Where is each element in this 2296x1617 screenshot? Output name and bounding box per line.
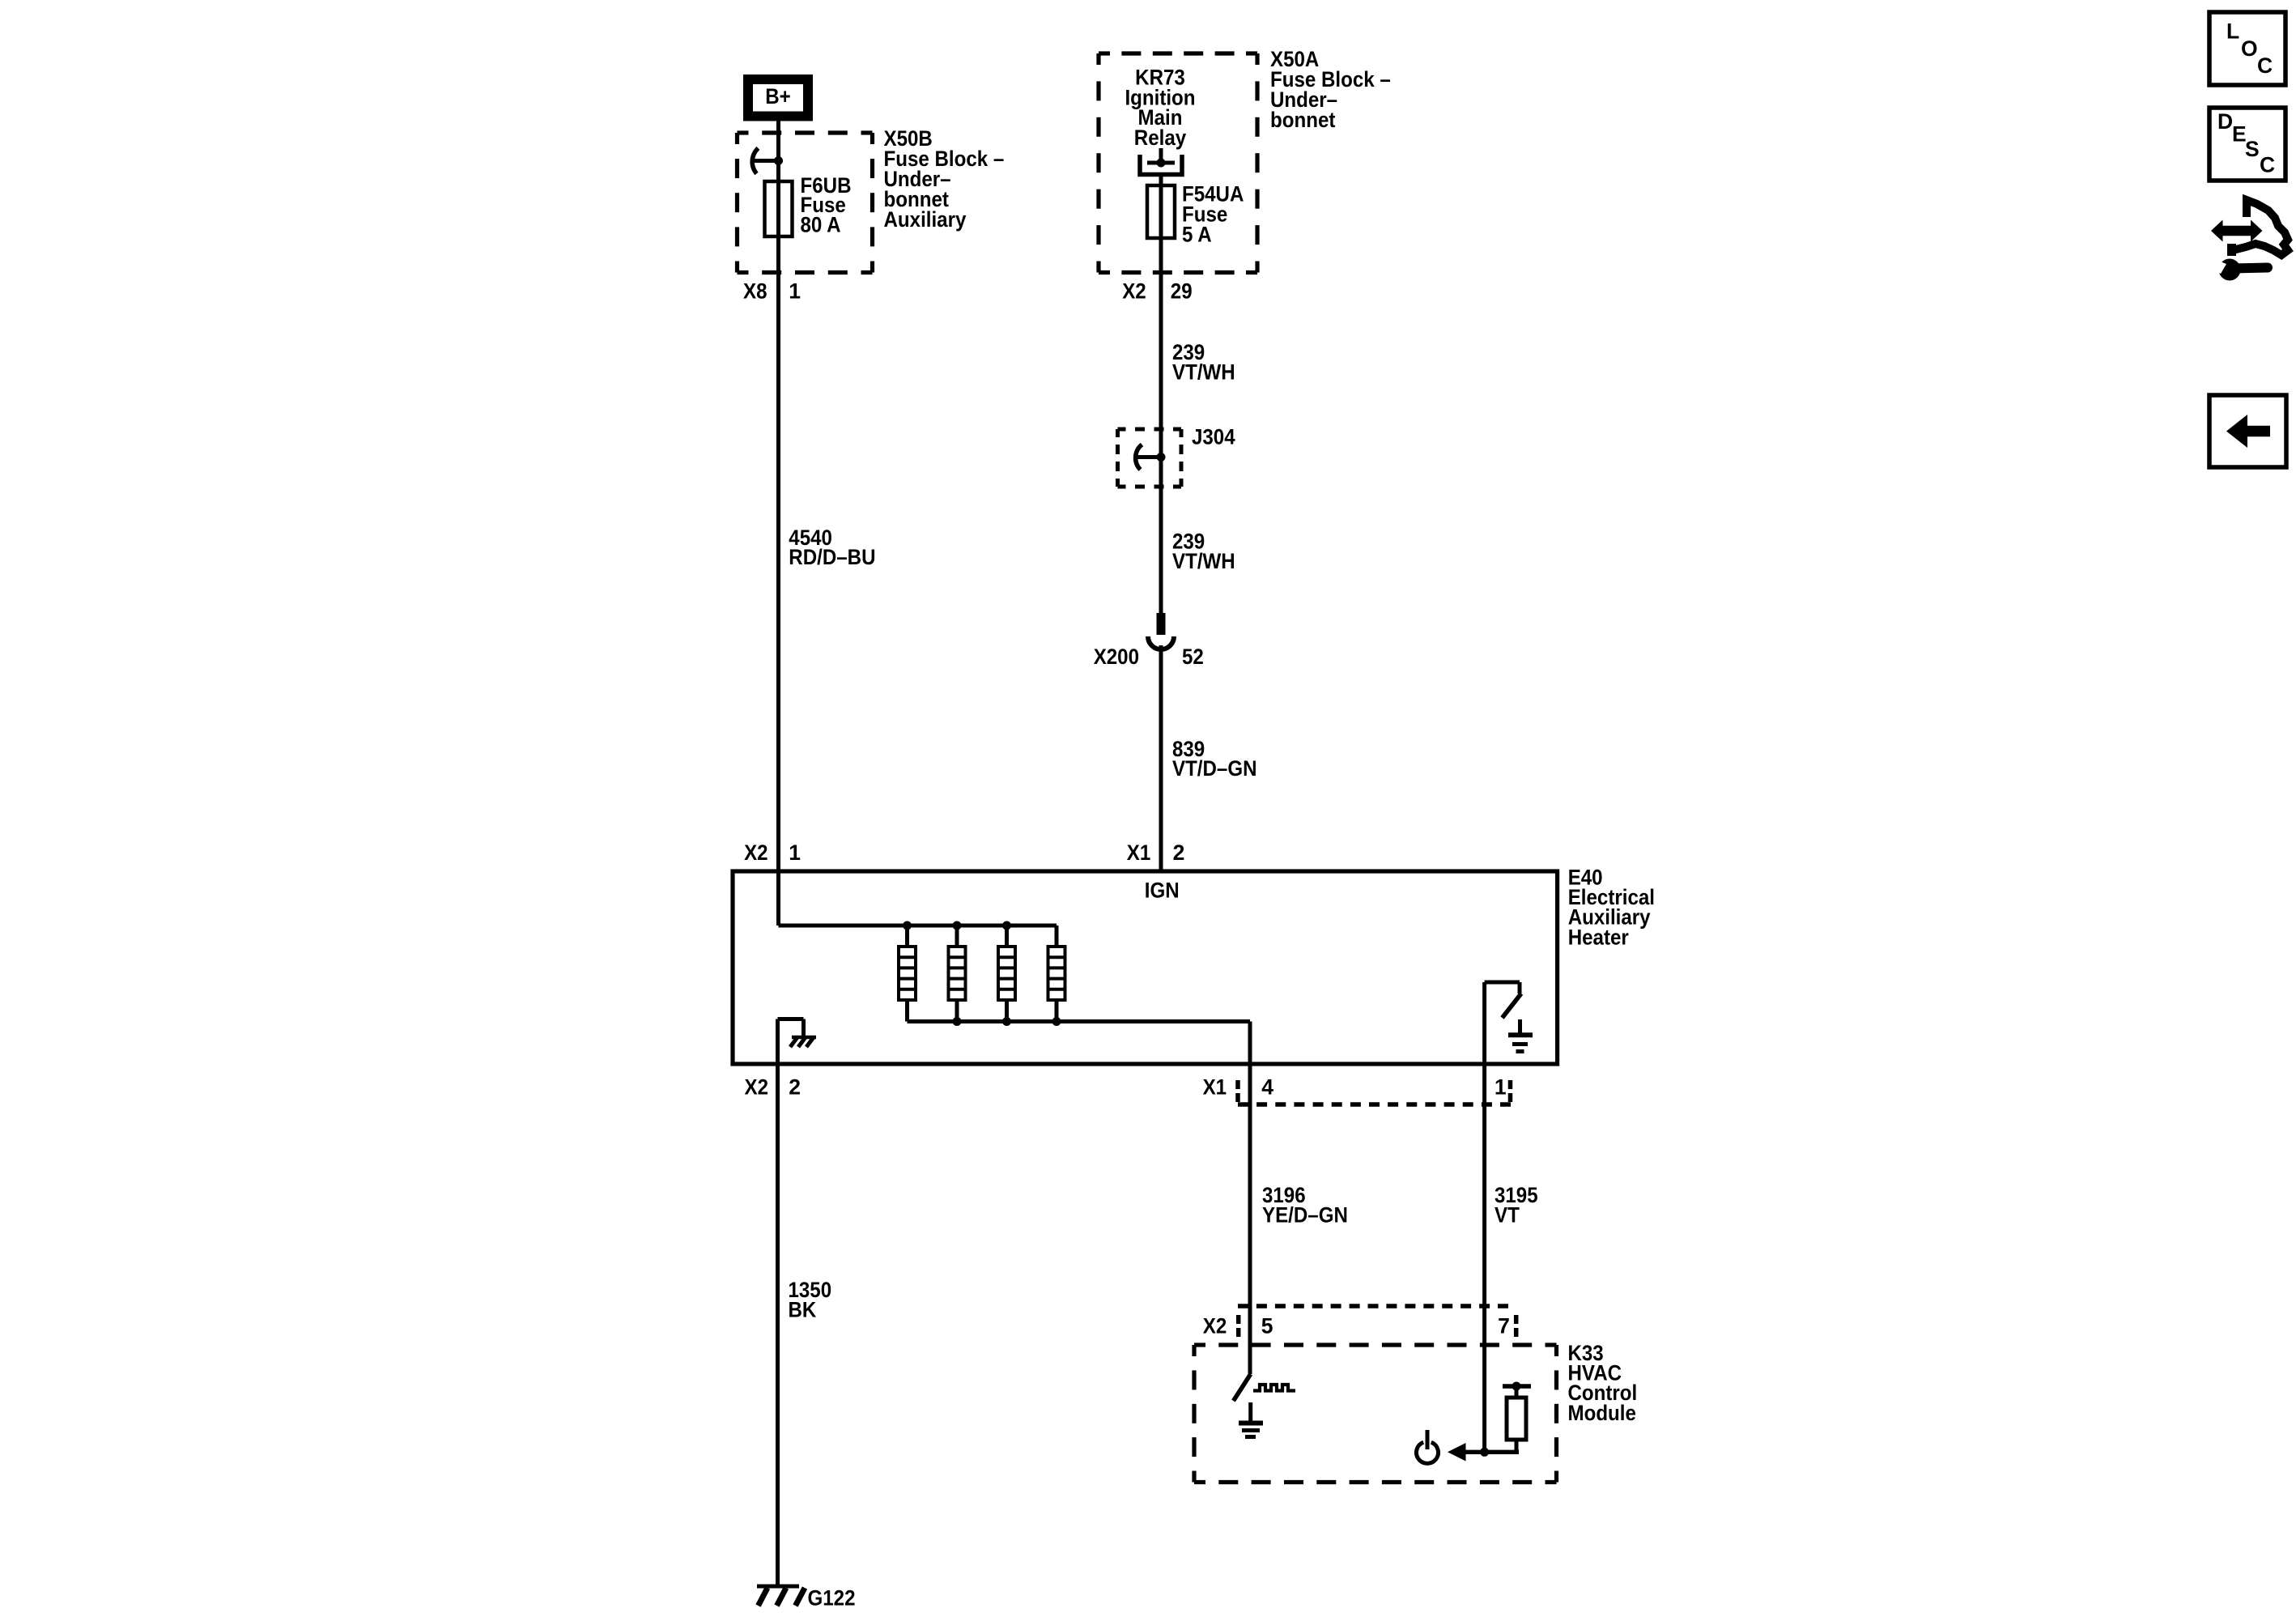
svg-text:O: O (2241, 36, 2258, 61)
label wire 3196 YE/D-GN (1262, 1183, 1348, 1227)
svg-text:J304: J304 (1192, 424, 1235, 449)
pin label X2 at K33 (1203, 1313, 1227, 1338)
label wire 1350 BK (789, 1278, 832, 1322)
wire E40 right pin1 branch (1485, 982, 1520, 1065)
resistor in K33 (1503, 1386, 1531, 1452)
label wire 839 VT/D-GN (1172, 737, 1257, 781)
svg-text:bonnet: bonnet (1270, 108, 1336, 132)
junction dot pin7 wire node (1480, 1448, 1489, 1457)
label IGN (1145, 879, 1180, 903)
svg-text:Relay: Relay (1134, 126, 1187, 150)
svg-text:X2: X2 (1122, 279, 1146, 303)
svg-text:X2: X2 (745, 1074, 769, 1099)
svg-text:4: 4 (1261, 1074, 1273, 1099)
fuse F6UB rect 80A (765, 181, 793, 236)
label wire 239 VT/WH upper (1172, 340, 1235, 385)
svg-text:Heater: Heater (1568, 925, 1629, 949)
dashed connector line above K33 (1238, 1304, 1508, 1308)
label X50B Fuse Block Underbonnet Auxiliary (884, 126, 1005, 232)
pin label X1 below E40 (1203, 1074, 1227, 1099)
label wire 3195 VT (1495, 1183, 1538, 1227)
connector X200 female cup (1148, 636, 1174, 649)
icon box back arrow (2209, 395, 2286, 467)
svg-text:X1: X1 (1203, 1074, 1227, 1099)
wire 3196 down (1248, 1063, 1252, 1374)
pin label X1 above E40 (1127, 840, 1151, 865)
svg-text:VT/WH: VT/WH (1172, 360, 1235, 384)
ground G122 chassis symbol (757, 1586, 805, 1606)
splice J304 dashed box (1118, 429, 1182, 487)
svg-text:BK: BK (789, 1297, 817, 1321)
svg-text:G122: G122 (808, 1586, 856, 1611)
svg-text:VT/D–GN: VT/D–GN (1172, 756, 1257, 781)
svg-text:X2: X2 (744, 840, 768, 865)
pin label X200 (1094, 645, 1139, 669)
pin label X2 above E40 left (744, 840, 768, 865)
switch blade inside E40 (1503, 994, 1522, 1018)
svg-text:X200: X200 (1094, 645, 1139, 669)
icon back arrow (2226, 415, 2270, 448)
label G122 (808, 1586, 856, 1611)
svg-text:1: 1 (789, 279, 801, 303)
fuse F54UA rect 5A (1147, 185, 1175, 238)
svg-text:L: L (2226, 19, 2239, 43)
svg-text:1: 1 (789, 840, 801, 865)
connector tick right pin1 (1508, 1080, 1513, 1102)
icon remove-replace double arrow (2211, 220, 2263, 242)
connector terminal arc at J304 (1136, 445, 1161, 470)
icon text DESC (2217, 109, 2275, 177)
arrowhead to power symbol (1448, 1443, 1466, 1462)
power label B+ text (765, 84, 791, 109)
svg-text:29: 29 (1171, 279, 1193, 303)
label E40 Electrical Auxiliary Heater (1568, 865, 1655, 949)
pin label X8 (743, 279, 767, 303)
heater element 2 (949, 926, 966, 1022)
svg-text:C: C (2257, 53, 2273, 78)
pin label 29 (1171, 279, 1193, 303)
label wire 4540 RD/D-BU (789, 526, 875, 569)
icon box LOC (2209, 12, 2285, 85)
switch blade in K33 (1234, 1374, 1251, 1401)
label wire 239 VT/WH lower (1172, 529, 1235, 573)
pin label 2 below E40 (789, 1074, 801, 1099)
svg-text:VT/WH: VT/WH (1172, 549, 1235, 573)
svg-text:2: 2 (1173, 840, 1185, 865)
svg-text:52: 52 (1182, 645, 1204, 669)
label F6UB Fuse 80 A (801, 173, 852, 237)
wire E40 ground jog X2-2 (778, 1019, 804, 1066)
relay KR73 contact bar and bracket (1140, 148, 1182, 175)
power-on symbol (1416, 1430, 1438, 1463)
label KR73 Ignition Main Relay (1125, 66, 1195, 150)
icon remove-replace wrench (2209, 258, 2268, 281)
svg-text:X2: X2 (1203, 1313, 1227, 1338)
svg-text:80 A: 80 A (801, 212, 841, 236)
wire X200 down to E40 pin X1-2 (1159, 645, 1163, 871)
pin label 52 (1182, 645, 1204, 669)
heater element 4 (1048, 926, 1065, 1022)
chassis ground inside E40 (790, 1037, 816, 1047)
pin label X2 below E40 (745, 1074, 769, 1099)
icon remove-replace part outline (2227, 200, 2288, 256)
heater element 1 (899, 926, 916, 1022)
svg-text:VT: VT (1495, 1202, 1520, 1227)
junction dot B+ fuse node (774, 156, 783, 165)
pin label 1 above E40 left (789, 840, 801, 865)
earth ground in K33 (1239, 1402, 1263, 1437)
label J304 (1192, 424, 1235, 449)
svg-text:Auxiliary: Auxiliary (884, 207, 967, 232)
svg-text:5 A: 5 A (1182, 222, 1212, 246)
icon text LOC (2226, 19, 2273, 78)
svg-text:B+: B+ (765, 84, 791, 109)
svg-text:Module: Module (1568, 1401, 1636, 1425)
connector tick right pin7 (1514, 1315, 1519, 1337)
svg-text:1: 1 (1495, 1074, 1507, 1099)
wire 3195 down (1482, 1063, 1486, 1452)
svg-text:2: 2 (789, 1074, 801, 1099)
connector X200 male terminal tip (1157, 613, 1166, 635)
earth ground inside E40 (1508, 1019, 1533, 1052)
fuse block X50B dashed box (738, 133, 873, 273)
pin label 5 at K33 (1261, 1313, 1273, 1338)
svg-text:X1: X1 (1127, 840, 1151, 865)
power symbol B+ box (743, 74, 813, 121)
svg-text:C: C (2260, 152, 2275, 177)
fuse block X50A dashed box (1099, 53, 1257, 273)
wire 1350 BK to ground (776, 1063, 780, 1586)
svg-text:RD/D–BU: RD/D–BU (789, 545, 875, 569)
pin label 2 above E40 (1173, 840, 1185, 865)
junction dots bottom bus (953, 1017, 1061, 1026)
label X50A Fuse Block Underbonnet (1270, 47, 1391, 132)
svg-text:IGN: IGN (1145, 879, 1180, 903)
module K33 HVAC Control dashed box (1194, 1345, 1557, 1483)
wire relay to fuse F54UA (1159, 174, 1163, 185)
svg-text:5: 5 (1261, 1313, 1273, 1338)
wire E40 internal top bus (779, 871, 1057, 926)
label K33 HVAC Control Module (1568, 1341, 1638, 1425)
svg-text:YE/D–GN: YE/D–GN (1262, 1202, 1348, 1227)
junction dot J304 (1157, 453, 1166, 462)
wire resistor to arrow (1465, 1450, 1519, 1454)
svg-text:X8: X8 (743, 279, 767, 303)
connector tick left X2-5 (1236, 1315, 1241, 1337)
junction dots top bus (903, 921, 1011, 930)
connector terminal arc at F6UB (751, 148, 778, 174)
wire F54UA down to J304 (1159, 238, 1163, 457)
label F54UA Fuse 5 A (1182, 181, 1244, 246)
junction dot resistor top (1512, 1382, 1521, 1391)
wire J304 down to X200 (1159, 457, 1163, 615)
pin label 4 below E40 (1261, 1074, 1273, 1099)
pin label X2 at X50A (1122, 279, 1146, 303)
pin label 1 left branch (789, 279, 801, 303)
svg-text:D: D (2217, 109, 2233, 134)
connector tick left X1-4 (1235, 1080, 1240, 1102)
pin label 7 at K33 (1498, 1313, 1510, 1338)
component E40 Electrical Auxiliary Heater box (733, 871, 1558, 1064)
pin label 1 below E40 right (1495, 1074, 1507, 1099)
icon box DESC (2209, 108, 2285, 181)
svg-text:S: S (2245, 137, 2260, 161)
wire B+ down to E40 pin X2-1 (776, 121, 780, 871)
dashed connector line below E40 (1238, 1102, 1511, 1107)
svg-text:7: 7 (1498, 1313, 1510, 1338)
pwm signal symbol (1253, 1385, 1295, 1391)
wire E40 internal bottom bus (908, 1022, 1251, 1066)
junction dot relay contact (1157, 159, 1166, 168)
heater element 3 (998, 926, 1015, 1022)
